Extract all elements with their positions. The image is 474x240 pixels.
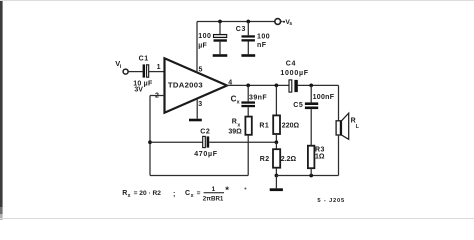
- node ground rail: [275, 174, 279, 178]
- svg-text:R3: R3: [315, 147, 325, 154]
- label Vi: [115, 59, 122, 70]
- label 100nF right: [313, 94, 335, 101]
- svg-text:x: x: [128, 193, 131, 199]
- resistor Rx: [245, 117, 251, 135]
- svg-text:R2: R2: [260, 156, 270, 163]
- svg-text:1Ω: 1Ω: [315, 154, 325, 161]
- svg-text:i: i: [120, 64, 122, 70]
- node rail/C3: [246, 20, 250, 24]
- svg-text:1000µF: 1000µF: [280, 70, 308, 77]
- wire C5 to R3: [310, 109, 312, 146]
- svg-text:1: 1: [212, 186, 216, 193]
- resistor R3: [308, 146, 315, 169]
- capacitor 100uF (electrolytic to ground): [214, 35, 227, 42]
- wire C2 line left: [150, 141, 203, 143]
- label Rx: [232, 118, 241, 128]
- capacitor C1 (10uF electrolytic, series input): [143, 64, 149, 77]
- node R1/R2/C2: [275, 140, 279, 144]
- svg-text:x: x: [237, 99, 240, 105]
- wire C2 line right: [209, 141, 276, 143]
- node output/Cx: [246, 84, 250, 88]
- node output/R1: [275, 84, 279, 88]
- label 3V: [134, 87, 143, 94]
- capacitor C5 (100nF): [305, 102, 318, 109]
- label RL: [351, 117, 360, 130]
- formula Rx = 20 R2 ; Cx = 1/(2piBR1): [122, 185, 229, 202]
- wire Cx branch upper: [247, 85, 249, 101]
- label C1: [139, 56, 149, 63]
- label C5: [293, 102, 303, 109]
- stray ink speck: [244, 188, 246, 190]
- node pin2/C2: [148, 140, 152, 144]
- label 2.2ohm: [281, 156, 297, 163]
- svg-text:39nF: 39nF: [249, 94, 267, 101]
- svg-text:R1: R1: [259, 122, 269, 129]
- wire pin5 to supply rail: [196, 22, 198, 73]
- svg-text:220Ω: 220Ω: [282, 122, 300, 129]
- svg-text:2.2Ω: 2.2Ω: [281, 156, 297, 163]
- ground pin3: [189, 119, 202, 122]
- page top faint edge: [0, 0, 474, 1]
- wire C3 bottom stem: [247, 42, 249, 55]
- wire R3 bottom stem: [310, 168, 312, 175]
- wire ground stem: [275, 176, 277, 189]
- node R3/rail: [309, 174, 313, 178]
- wire right side down to speaker: [338, 85, 340, 121]
- wire pin3 to ground: [196, 98, 198, 118]
- label C4: [286, 60, 296, 67]
- svg-text:*: *: [225, 185, 229, 196]
- ground below C3: [241, 54, 255, 57]
- svg-text:470µF: 470µF: [194, 151, 218, 158]
- wire R2 top stem: [275, 142, 277, 149]
- svg-text:100nF: 100nF: [313, 94, 335, 101]
- label C2: [200, 129, 210, 136]
- label 100nF: [257, 33, 270, 49]
- svg-text:3V: 3V: [134, 87, 143, 94]
- speaker RL: [336, 113, 349, 139]
- node rail/100uF: [218, 20, 222, 24]
- wire pin2 feedback: [150, 96, 248, 176]
- svg-text:L: L: [356, 124, 360, 130]
- svg-text:C4: C4: [286, 60, 296, 67]
- wire output pin4: [226, 84, 289, 86]
- wire C3 top stem: [247, 22, 249, 36]
- svg-text:3: 3: [198, 101, 202, 108]
- resistor R2: [273, 149, 280, 168]
- svg-text:µF: µF: [198, 42, 207, 49]
- pin number 4: [228, 80, 232, 87]
- ground below R2: [270, 188, 283, 191]
- label 39nF: [249, 94, 267, 101]
- node output/C5: [309, 84, 313, 88]
- capacitor Cx (39nF): [241, 101, 255, 107]
- wire bottom right rail: [276, 175, 338, 177]
- label C3: [236, 26, 246, 33]
- svg-text:C3: C3: [236, 26, 246, 33]
- svg-text:= 20 · R2: = 20 · R2: [134, 190, 162, 197]
- svg-text:5 - J205: 5 - J205: [317, 198, 345, 204]
- svg-text:5: 5: [199, 66, 203, 73]
- pin number 5: [199, 66, 203, 73]
- wire C5 branch upper: [310, 85, 312, 102]
- label R3: [315, 147, 325, 154]
- svg-text:C5: C5: [293, 102, 303, 109]
- pin number 2: [155, 93, 159, 100]
- svg-text:C: C: [185, 190, 190, 197]
- svg-text:39Ω: 39Ω: [228, 129, 242, 136]
- svg-text:x: x: [191, 193, 194, 199]
- op-amp U1 TDA2003: [165, 58, 228, 112]
- label Cx: [231, 95, 240, 106]
- ground below 100uF: [213, 54, 228, 57]
- wire input stub: [128, 71, 142, 73]
- svg-text:1: 1: [157, 64, 161, 71]
- wire R2 bottom stem: [275, 168, 277, 176]
- wire C4 to speaker corner: [297, 84, 338, 86]
- wire R1 bottom to node: [275, 134, 277, 142]
- label 39ohm: [228, 129, 242, 136]
- svg-text:2πBR1: 2πBR1: [203, 196, 224, 203]
- wire Rx bottom to loop: [247, 135, 249, 176]
- figure number 5-J205: [317, 198, 345, 204]
- svg-text:;: ;: [173, 191, 175, 198]
- svg-text:R: R: [122, 190, 127, 197]
- label 220ohm: [282, 122, 300, 129]
- svg-text:TDA2003: TDA2003: [168, 80, 203, 89]
- svg-text:100: 100: [198, 33, 211, 40]
- wire 100uF bottom stem: [219, 42, 221, 55]
- capacitor C4 (1000uF electrolytic, series output): [289, 80, 298, 92]
- wire top supply rail: [197, 21, 275, 23]
- pin number 1: [157, 64, 161, 71]
- wire C1 to pin1: [149, 71, 165, 73]
- capacitor C3 (100nF to ground): [242, 35, 255, 41]
- wire 100uF top stem: [219, 22, 221, 35]
- label 10uF: [133, 80, 153, 87]
- svg-text:nF: nF: [257, 42, 267, 49]
- wire R1 branch upper: [275, 85, 277, 115]
- page left edge scan line: [0, 0, 3, 220]
- svg-text:R: R: [232, 118, 237, 125]
- capacitor C2 (470uF electrolytic, series feedback): [203, 136, 210, 147]
- pin number 3: [198, 101, 202, 108]
- wire speaker bottom: [338, 135, 340, 176]
- svg-text:s: s: [289, 21, 292, 27]
- label R2: [260, 156, 270, 163]
- supply terminal +Vs: [275, 19, 285, 25]
- resistor R1: [273, 115, 280, 134]
- input terminal Vi: [123, 69, 128, 74]
- svg-text:C1: C1: [139, 56, 149, 63]
- wire Cx to Rx: [247, 107, 249, 116]
- label 100uF: [198, 33, 211, 49]
- page bottom faint edge: [0, 218, 474, 219]
- label 1ohm: [315, 154, 325, 161]
- svg-text:C2: C2: [200, 129, 210, 136]
- svg-text:100: 100: [257, 33, 270, 40]
- label 470uF: [194, 151, 218, 158]
- label Vs: [285, 19, 292, 27]
- label TDA2003: [168, 80, 203, 89]
- label R1: [259, 122, 269, 129]
- svg-text:=: =: [197, 190, 201, 197]
- label 1000uF: [280, 70, 308, 77]
